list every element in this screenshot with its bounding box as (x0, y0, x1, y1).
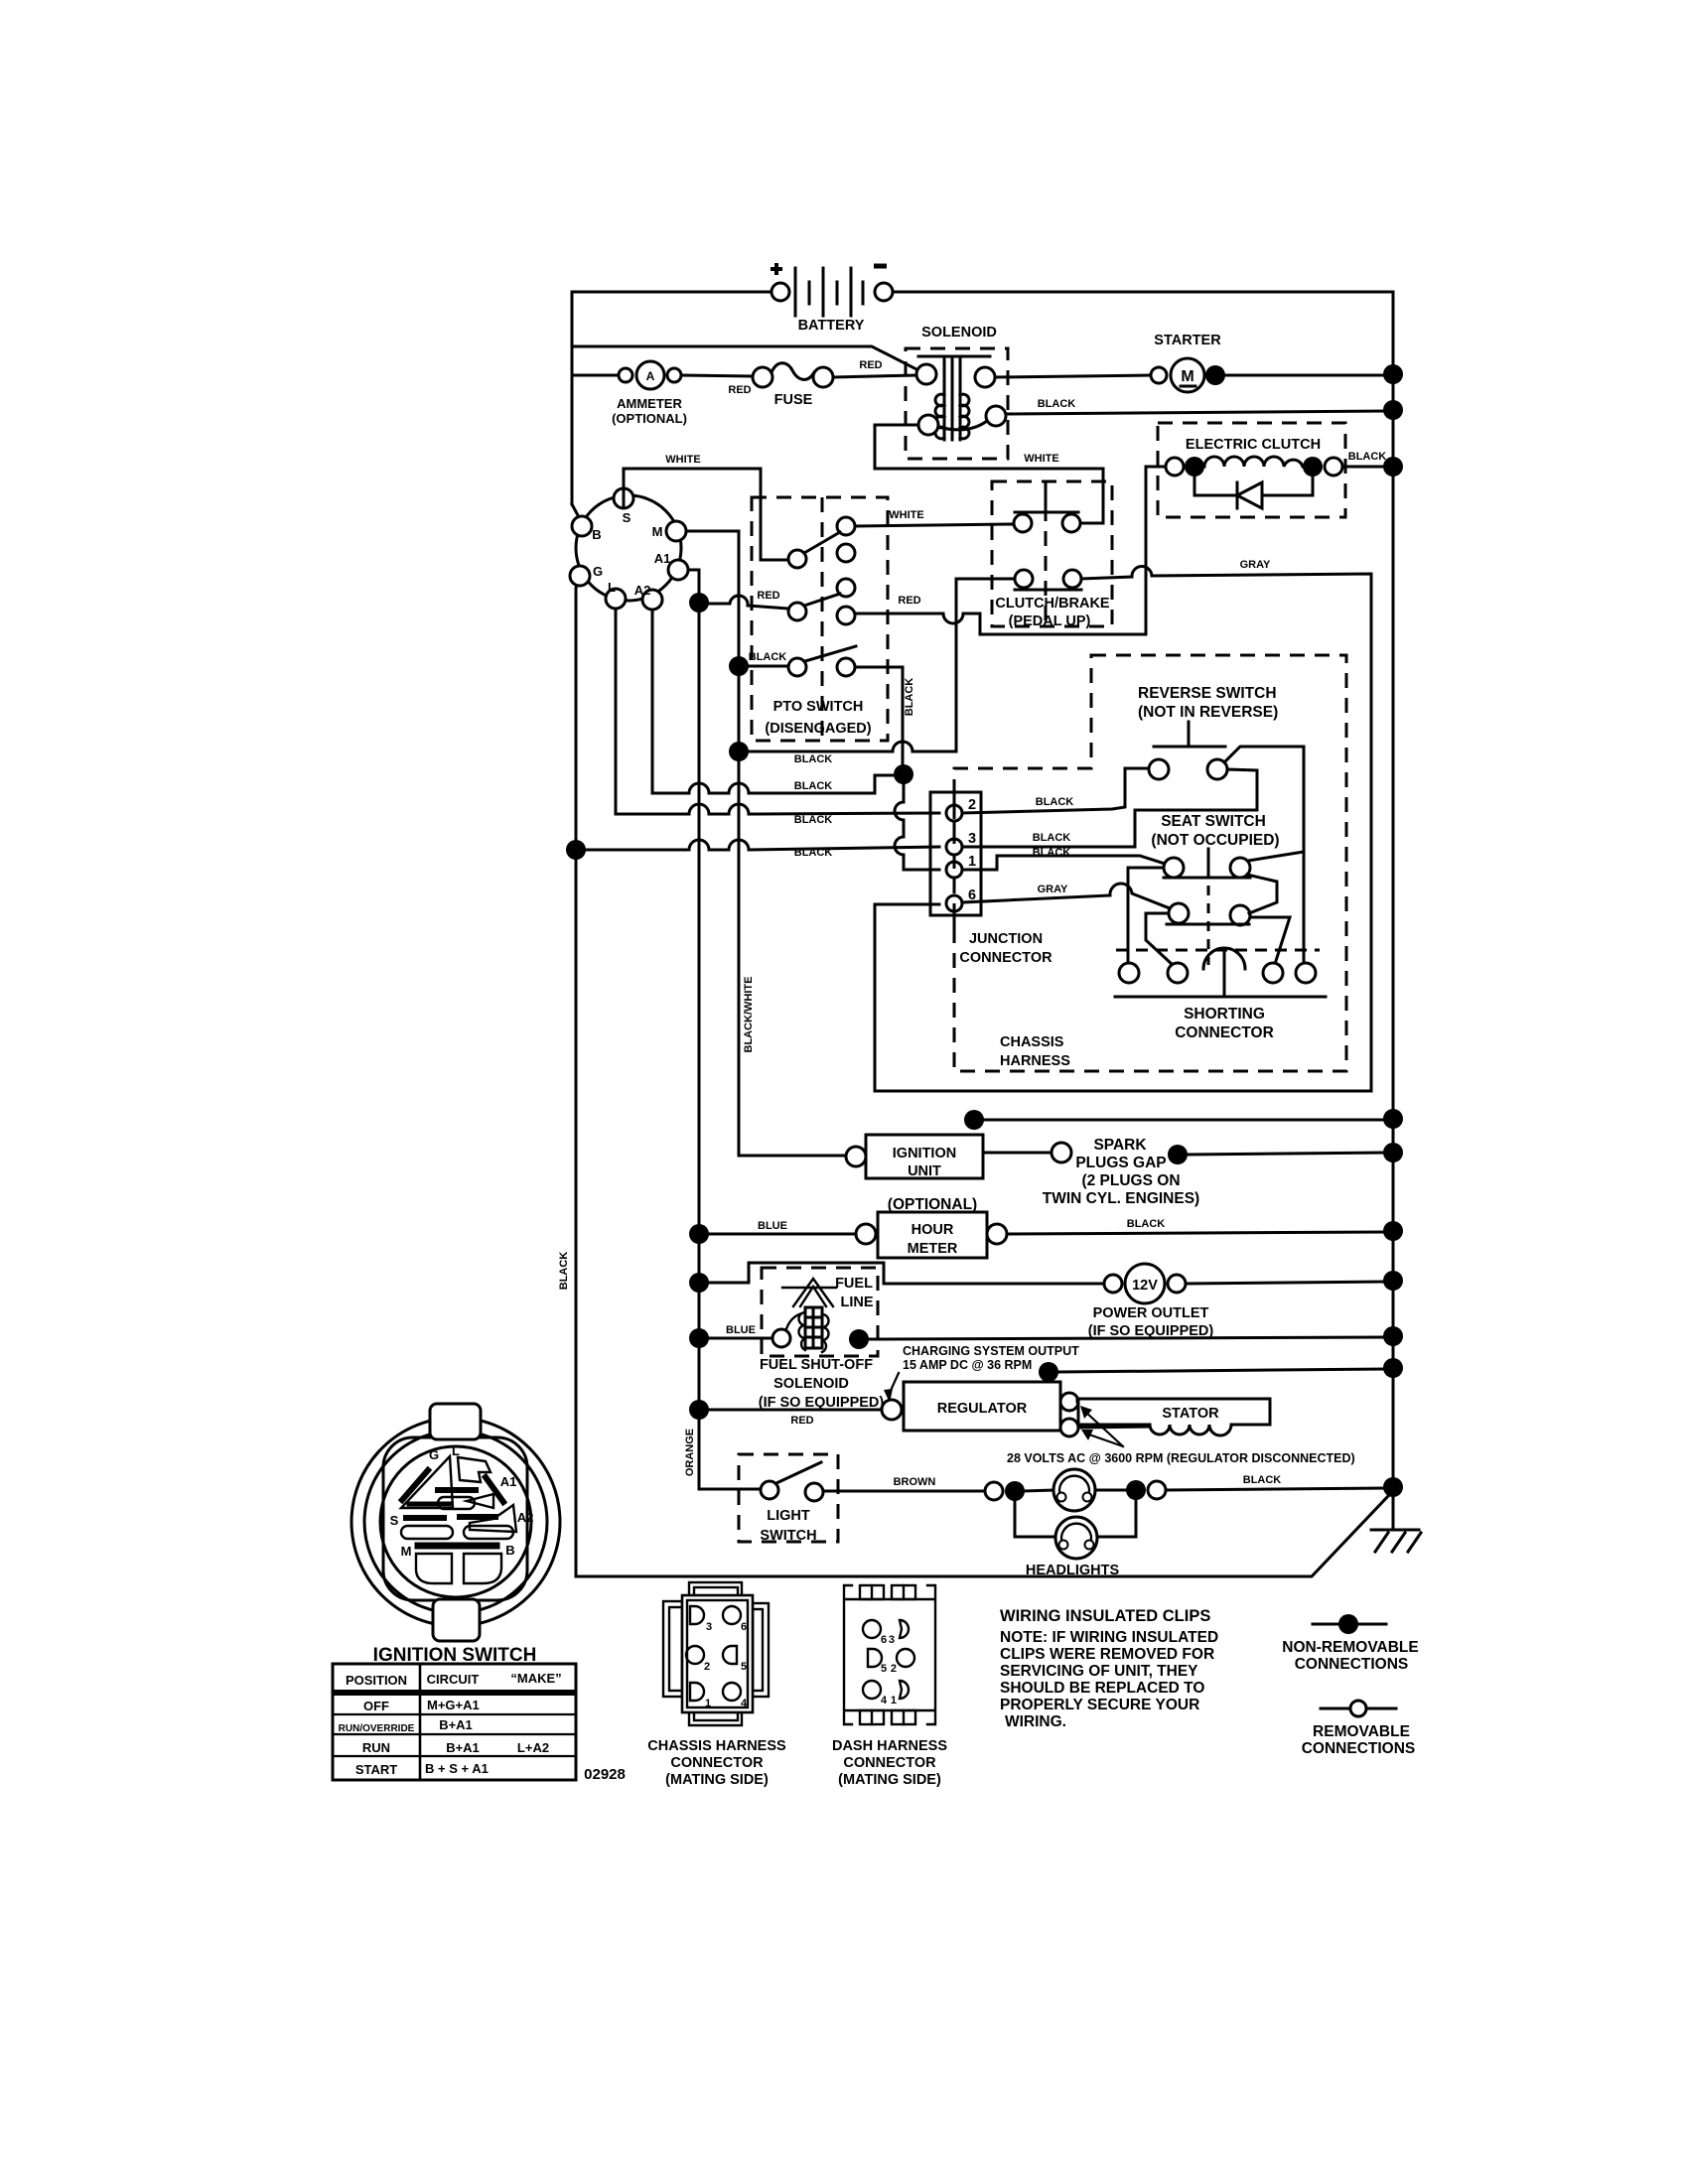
svg-text:CLUTCH/BRAKE: CLUTCH/BRAKE (995, 596, 1110, 612)
svg-text:BLACK: BLACK (1038, 398, 1076, 410)
svg-text:B: B (505, 1543, 514, 1558)
wire reverse switch right contact stub (1227, 769, 1257, 770)
seat harness terminal 3 (1263, 963, 1283, 983)
svg-text:S: S (623, 510, 631, 525)
svg-text:WHITE: WHITE (665, 454, 700, 466)
junction dot right rail power outlet (1383, 1271, 1403, 1291)
wire ignition unit to spark plugs (983, 1152, 1052, 1155)
legend removable connections (1302, 1701, 1416, 1757)
wire red regulator (708, 1409, 882, 1412)
junction dot right rail solenoid black (1383, 400, 1403, 420)
svg-text:(PEDAL UP): (PEDAL UP) (1009, 614, 1091, 629)
svg-text:3: 3 (968, 831, 976, 847)
svg-text:3: 3 (706, 1621, 712, 1633)
svg-text:A2: A2 (517, 1510, 534, 1525)
hour meter (856, 1212, 1007, 1258)
svg-text:1: 1 (968, 854, 976, 870)
svg-text:SWITCH: SWITCH (760, 1528, 816, 1544)
svg-text:B+A1: B+A1 (446, 1740, 480, 1755)
svg-text:L: L (608, 580, 616, 595)
svg-text:A2: A2 (634, 583, 651, 598)
wire hour meter to right rail (1007, 1232, 1393, 1234)
wire red A1 to PTO pole2 (708, 596, 788, 609)
svg-text:(2 PLUGS ON: (2 PLUGS ON (1081, 1172, 1180, 1189)
svg-text:START: START (355, 1762, 397, 1777)
headlight right terminal (1148, 1481, 1166, 1499)
junction dot A1 rail regulator (689, 1400, 709, 1420)
wire seat switch top left to terminal (1128, 868, 1164, 963)
wire fuel solenoid to right rail (868, 1337, 1393, 1339)
dash harness connector (832, 1585, 947, 1788)
svg-text:CIRCUIT: CIRCUIT (427, 1672, 480, 1687)
fuel shut-off solenoid coil (785, 1312, 829, 1352)
svg-text:RED: RED (898, 595, 920, 607)
svg-text:PLUGS GAP: PLUGS GAP (1075, 1155, 1166, 1171)
svg-text:RED: RED (859, 359, 882, 371)
svg-text:BLACK: BLACK (1033, 832, 1071, 844)
wire blue hour meter (708, 1233, 856, 1236)
terminal G (570, 566, 590, 586)
PTO pole1 contacts (788, 550, 806, 568)
svg-text:CONNECTOR: CONNECTOR (670, 1755, 764, 1771)
svg-text:SEAT SWITCH: SEAT SWITCH (1161, 813, 1266, 830)
wire G rail down to ground frame (576, 586, 1389, 1576)
wire seat switch pole link (1247, 875, 1277, 913)
wire left rail to ammeter (572, 374, 619, 377)
svg-text:CONNECTIONS: CONNECTIONS (1302, 1740, 1416, 1757)
chassis harness connector (647, 1582, 786, 1788)
wire pin2 to reverse switch (962, 768, 1149, 813)
svg-text:BLACK: BLACK (1243, 1474, 1282, 1486)
wire G rail to junction pin3 (585, 840, 939, 850)
wire M rail black white down to ignition unit (686, 531, 846, 1156)
junction dot regulator output (1039, 1362, 1058, 1382)
wiring insulated clips note (1000, 1607, 1218, 1730)
connector separation dashed line (1116, 949, 1320, 952)
PTO pole3 blade (805, 646, 856, 661)
svg-text:BLUE: BLUE (758, 1220, 787, 1232)
svg-text:L+A2: L+A2 (517, 1740, 549, 1755)
PTO pole3 contacts (788, 658, 806, 676)
svg-text:CHASSIS HARNESS: CHASSIS HARNESS (647, 1738, 786, 1754)
wire power outlet to right rail (1186, 1282, 1393, 1284)
svg-text:4: 4 (741, 1698, 748, 1709)
wire solenoid black to right rail (1006, 411, 1393, 414)
wire red feed to electric clutch (980, 467, 1166, 634)
svg-text:1: 1 (891, 1695, 897, 1706)
label fuel shut-off solenoid (759, 1357, 885, 1411)
wire pin3 to reverse switch (962, 770, 1257, 847)
svg-text:NON-REMOVABLE: NON-REMOVABLE (1282, 1639, 1419, 1656)
svg-text:UNIT: UNIT (908, 1163, 941, 1179)
junction dot G rail pin3 (566, 840, 586, 860)
wire red PTO pole2 to electric clutch (855, 614, 1146, 634)
reverse switch (1138, 685, 1304, 779)
stator (1077, 1399, 1270, 1435)
electric clutch (1158, 423, 1345, 517)
svg-text:(NOT OCCUPIED): (NOT OCCUPIED) (1151, 832, 1279, 849)
svg-text:SHORTING: SHORTING (1184, 1006, 1265, 1023)
svg-text:A1: A1 (500, 1474, 517, 1489)
ignition unit (846, 1135, 983, 1179)
ammeter (optional) (612, 361, 687, 426)
svg-text:SPARK: SPARK (1093, 1137, 1147, 1154)
wire battery positive to left rail (572, 292, 772, 504)
svg-text:LINE: LINE (840, 1295, 873, 1310)
svg-text:5: 5 (741, 1661, 747, 1673)
ignition switch connector body (576, 495, 681, 601)
svg-text:2: 2 (968, 797, 976, 813)
junction dot right rail hour meter (1383, 1221, 1403, 1241)
svg-text:M+G+A1: M+G+A1 (427, 1698, 480, 1712)
spark plug terminal (1052, 1143, 1071, 1162)
svg-text:TWIN CYL. ENGINES): TWIN CYL. ENGINES) (1043, 1190, 1199, 1207)
svg-text:1: 1 (705, 1698, 711, 1709)
svg-text:3: 3 (889, 1634, 895, 1646)
svg-text:SERVICING OF UNIT, THEY: SERVICING OF UNIT, THEY (1000, 1663, 1198, 1680)
clutch brake pole2 contacts (1015, 570, 1033, 588)
junction dot right rail fuel (1383, 1326, 1403, 1346)
svg-text:BLACK: BLACK (1348, 451, 1387, 463)
svg-text:POSITION: POSITION (346, 1673, 407, 1688)
diode electric clutch (1194, 477, 1313, 508)
svg-text:METER: METER (908, 1241, 958, 1257)
wire seat switch bottom left to terminal (1146, 913, 1173, 965)
wire starter to right rail (1224, 374, 1393, 377)
svg-text:A: A (646, 369, 655, 383)
junction dot A1 red (689, 593, 709, 613)
svg-text:RUN/OVERRIDE: RUN/OVERRIDE (339, 1723, 415, 1734)
wire ignition unit top to right rail (983, 1119, 1393, 1122)
svg-text:BLACK/WHITE: BLACK/WHITE (743, 977, 755, 1053)
junction dot right rail regulator (1383, 1358, 1403, 1378)
junction dot M rail clutch brake (729, 742, 749, 761)
svg-text:L: L (452, 1443, 460, 1458)
svg-text:JUNCTION: JUNCTION (969, 931, 1043, 947)
svg-text:(MATING SIDE): (MATING SIDE) (838, 1772, 941, 1788)
wire battery negative to right rail (893, 292, 1393, 1530)
wire seat switch bottom right to terminal (1250, 917, 1290, 964)
junction dot right rail clutch (1383, 457, 1403, 477)
svg-text:LIGHT: LIGHT (767, 1508, 810, 1524)
svg-text:12V: 12V (1132, 1278, 1158, 1294)
svg-text:BLACK: BLACK (1127, 1218, 1166, 1230)
svg-text:M: M (1181, 368, 1193, 385)
PTO pole2 contacts (788, 603, 806, 620)
svg-text:CONNECTOR: CONNECTOR (959, 950, 1052, 966)
wire A2 rail to pin1 node (652, 610, 895, 793)
svg-text:BLACK: BLACK (904, 678, 915, 717)
legend non-removable connections (1282, 1614, 1419, 1673)
svg-text:STATOR: STATOR (1162, 1406, 1219, 1422)
svg-text:REVERSE SWITCH: REVERSE SWITCH (1138, 685, 1277, 702)
svg-text:HOUR: HOUR (912, 1222, 954, 1238)
wire black M to PTO pole3 (748, 665, 788, 668)
junction dot headlight left (1005, 1481, 1025, 1501)
wire brown light switch to headlights (823, 1490, 985, 1493)
chassis harness dashed box (954, 655, 1346, 1071)
terminal A2 (642, 590, 662, 610)
svg-text:DASH HARNESS: DASH HARNESS (832, 1738, 947, 1754)
svg-text:M: M (401, 1544, 412, 1559)
terminal A1 (668, 560, 688, 580)
svg-text:CHARGING SYSTEM OUTPUT: CHARGING SYSTEM OUTPUT (903, 1344, 1079, 1358)
svg-text:A1: A1 (654, 551, 671, 566)
svg-text:BROWN: BROWN (894, 1476, 936, 1488)
svg-text:BLACK: BLACK (794, 847, 833, 859)
svg-text:SOLENOID: SOLENOID (773, 1376, 849, 1392)
svg-text:RED: RED (757, 590, 779, 602)
terminal L (606, 589, 626, 609)
non-removable connection spark (1168, 1145, 1188, 1164)
svg-text:BLUE: BLUE (726, 1324, 756, 1336)
svg-text:GRAY: GRAY (1240, 559, 1271, 571)
svg-text:M: M (652, 524, 663, 539)
svg-text:G: G (429, 1447, 439, 1462)
svg-text:BLACK: BLACK (749, 651, 787, 663)
svg-text:FUEL SHUT-OFF: FUEL SHUT-OFF (760, 1357, 873, 1373)
svg-text:REMOVABLE: REMOVABLE (1313, 1723, 1410, 1740)
fuel nozzle (782, 1279, 836, 1306)
svg-text:CONNECTOR: CONNECTOR (1175, 1024, 1274, 1041)
svg-text:POWER OUTLET: POWER OUTLET (1093, 1305, 1209, 1321)
PTO pole2 blade (804, 594, 840, 606)
junction dot right rail ignition (1383, 1109, 1403, 1129)
fuse F1 (753, 363, 833, 408)
seat switch (1151, 813, 1279, 965)
svg-text:(NOT IN REVERSE): (NOT IN REVERSE) (1138, 704, 1278, 721)
clutch brake pole1 actuator bar (1015, 484, 1078, 512)
wire electric clutch to right rail (1342, 466, 1393, 469)
svg-text:BLACK: BLACK (1033, 847, 1071, 859)
svg-text:4: 4 (881, 1695, 888, 1706)
wire gray clutch brake to seat circuit (875, 566, 1371, 1091)
wire A1 rail down to light switch (699, 603, 761, 1489)
svg-text:BLACK: BLACK (794, 780, 833, 792)
svg-text:FUEL: FUEL (835, 1276, 873, 1292)
svg-text:HEADLIGHTS: HEADLIGHTS (1026, 1563, 1120, 1578)
wire white from S to PTO switch (624, 469, 788, 560)
svg-text:AMMETER: AMMETER (617, 396, 682, 411)
starter motor M (1151, 333, 1221, 392)
svg-text:RUN: RUN (362, 1740, 390, 1755)
stator arrows (1080, 1406, 1123, 1446)
headlight bottom branch (1015, 1499, 1136, 1537)
junction dot right rail spark (1383, 1143, 1403, 1162)
wire ammeter to fuse (681, 375, 753, 376)
wire fuse to solenoid (833, 375, 916, 377)
svg-text:IGNITION: IGNITION (893, 1146, 956, 1161)
wire black M common to clutch brake (748, 579, 1013, 751)
junction dot A1 rail hour meter (689, 1224, 709, 1244)
junction connector (930, 792, 1052, 966)
wire L rail to junction pin2 (616, 609, 939, 814)
svg-text:NOTE: IF WIRING INSULATED: NOTE: IF WIRING INSULATED (1000, 1629, 1218, 1646)
svg-text:RED: RED (728, 384, 751, 396)
light switch (739, 1454, 838, 1544)
svg-text:HARNESS: HARNESS (1000, 1053, 1070, 1069)
PTO switch box (752, 497, 888, 741)
svg-text:5: 5 (881, 1663, 887, 1675)
svg-text:RED: RED (790, 1415, 813, 1427)
wire gray pin6 to shorting connector (962, 884, 1170, 908)
junction dot A1 rail power outlet (689, 1273, 709, 1293)
wire solenoid white to clutch brake switch (875, 425, 1103, 523)
svg-text:BLACK: BLACK (558, 1252, 570, 1291)
wire blue fuel solenoid (708, 1337, 772, 1340)
svg-text:PTO SWITCH: PTO SWITCH (773, 699, 864, 715)
wire power outlet feed (708, 1263, 1104, 1284)
solenoid K1 (906, 325, 1008, 459)
svg-text:WHITE: WHITE (889, 509, 923, 521)
battery B1 (771, 263, 893, 334)
terminal M (666, 521, 686, 541)
svg-text:SOLENOID: SOLENOID (921, 325, 997, 341)
clutch brake pole2 closed bar (1015, 589, 1081, 592)
svg-text:WHITE: WHITE (1024, 453, 1058, 465)
svg-text:GRAY: GRAY (1038, 884, 1068, 895)
ground symbol (1371, 1530, 1421, 1552)
wire white PTO pole1 to clutch brake (855, 524, 1014, 526)
fuel line box (762, 1268, 878, 1356)
ignition switch letters (390, 1443, 534, 1559)
svg-text:B + S + A1: B + S + A1 (425, 1761, 489, 1776)
junction dot headlight right (1126, 1480, 1146, 1500)
non-removable connection starter output (1205, 365, 1225, 385)
svg-text:REGULATOR: REGULATOR (937, 1401, 1028, 1417)
seat harness terminal 2 (1168, 963, 1188, 983)
wire pin1 node down to junction pin1 (895, 783, 939, 870)
svg-text:2: 2 (704, 1661, 710, 1673)
ignition switch drawing (351, 1404, 560, 1641)
junction dot right rail starter (1383, 364, 1403, 384)
svg-text:B+A1: B+A1 (439, 1717, 473, 1732)
wire regulator output to right rail (1049, 1369, 1393, 1382)
junction dot right rail headlights (1383, 1477, 1403, 1497)
svg-text:(MATING SIDE): (MATING SIDE) (665, 1772, 769, 1788)
label spark plugs (1043, 1137, 1199, 1207)
svg-text:FUSE: FUSE (774, 392, 813, 408)
svg-text:CHASSIS: CHASSIS (1000, 1034, 1064, 1050)
label charging system output (884, 1344, 1079, 1403)
svg-text:B: B (592, 527, 601, 542)
seat harness terminal 4 (1296, 963, 1316, 983)
svg-text:WIRING.: WIRING. (1005, 1713, 1066, 1730)
wire headlights to right rail (1166, 1488, 1393, 1490)
headlight top (1024, 1469, 1127, 1511)
svg-text:(DISENGAGED): (DISENGAGED) (765, 721, 871, 737)
svg-text:CLIPS WERE REMOVED FOR: CLIPS WERE REMOVED FOR (1000, 1646, 1214, 1663)
svg-text:SHOULD BE REPLACED TO: SHOULD BE REPLACED TO (1000, 1680, 1204, 1697)
wire pin1 to seat switch (962, 856, 1165, 870)
svg-text:OFF: OFF (363, 1699, 389, 1713)
svg-text:6: 6 (881, 1634, 887, 1646)
wire seat switch top right to reverse vertical (1248, 852, 1304, 861)
junction dot ignition unit top (964, 1110, 984, 1130)
svg-text:BLACK: BLACK (794, 753, 833, 765)
svg-text:BATTERY: BATTERY (798, 318, 865, 334)
svg-text:28 VOLTS AC @ 3600 RPM (REGULA: 28 VOLTS AC @ 3600 RPM (REGULATOR DISCON… (1007, 1451, 1355, 1465)
PTO pole1 blade (804, 532, 840, 553)
headlight branch terminal (985, 1482, 1003, 1500)
shorting connector (1115, 948, 1326, 1041)
headlight bottom (1055, 1517, 1097, 1559)
svg-text:G: G (593, 564, 603, 579)
wire A1 to red dot (688, 570, 699, 594)
wire black PTO pole3 down to pin1 (855, 667, 903, 765)
svg-text:S: S (390, 1513, 399, 1528)
svg-text:PROPERLY SECURE YOUR: PROPERLY SECURE YOUR (1000, 1697, 1199, 1713)
svg-text:BLACK: BLACK (1036, 796, 1074, 808)
svg-text:(OPTIONAL): (OPTIONAL) (888, 1196, 977, 1213)
terminal B (572, 516, 592, 536)
svg-text:2: 2 (891, 1663, 897, 1675)
clutch brake switch box (992, 481, 1112, 629)
junction dot pin1 node (894, 764, 913, 784)
svg-text:STARTER: STARTER (1154, 333, 1221, 348)
svg-text:(OPTIONAL): (OPTIONAL) (612, 411, 687, 426)
junction dot M rail PTO pole3 (729, 656, 749, 676)
fuel valve tube (805, 1307, 822, 1348)
seat harness terminal 1 (1119, 963, 1139, 983)
clutch brake pole1 contacts (1014, 514, 1032, 532)
svg-text:CONNECTOR: CONNECTOR (843, 1755, 936, 1771)
svg-text:CONNECTIONS: CONNECTIONS (1295, 1656, 1409, 1673)
svg-text:6: 6 (741, 1621, 747, 1633)
wire left rail diagonal into terminal B (572, 504, 579, 517)
svg-text:BLACK: BLACK (794, 814, 833, 826)
terminal S (614, 488, 633, 508)
svg-text:WIRING INSULATED CLIPS: WIRING INSULATED CLIPS (1000, 1607, 1210, 1625)
wire battery feed to solenoid (572, 346, 918, 370)
svg-text:ELECTRIC CLUTCH: ELECTRIC CLUTCH (1186, 437, 1321, 453)
wire spark to right rail (1188, 1153, 1393, 1155)
ignition switch key pattern (401, 1456, 516, 1583)
wire solenoid to starter (995, 375, 1151, 377)
fuel solenoid right terminal (849, 1329, 869, 1349)
svg-text:15 AMP DC @ 36 RPM: 15 AMP DC @ 36 RPM (903, 1358, 1032, 1372)
12V power outlet (1088, 1264, 1214, 1339)
ignition switch table (333, 1664, 576, 1780)
svg-text:“MAKE”: “MAKE” (510, 1671, 561, 1686)
junction dot A1 rail fuel solenoid (689, 1328, 709, 1348)
fuel solenoid left terminal (772, 1329, 790, 1347)
svg-text:ORANGE: ORANGE (684, 1429, 696, 1476)
wire reverse switch to seat switch (1303, 747, 1306, 963)
svg-text:02928: 02928 (584, 1766, 626, 1783)
regulator (882, 1382, 1078, 1436)
